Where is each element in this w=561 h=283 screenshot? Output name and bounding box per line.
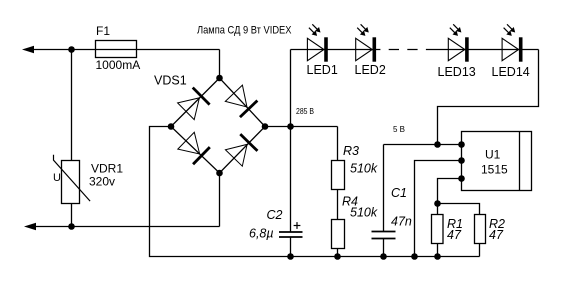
svg-text:LED2: LED2: [355, 63, 386, 77]
svg-text:1000mA: 1000mA: [96, 58, 141, 72]
wire U1 pin1 line: [384, 144, 462, 146]
svg-text:VDR1: VDR1: [91, 162, 123, 176]
resistor R4: [332, 220, 345, 249]
wire R1 top lead: [437, 204, 439, 215]
wire node285 up to LED chain: [290, 50, 292, 127]
svg-text:Лампа СД 9 Вт VIDEX: Лампа СД 9 Вт VIDEX: [197, 25, 292, 37]
svg-text:320v: 320v: [89, 175, 115, 189]
wire R3-R4 link: [337, 190, 339, 220]
bridge diode D bottom-left: [178, 132, 210, 164]
svg-text:U: U: [53, 172, 61, 184]
arrow left top: [22, 46, 34, 53]
svg-text:U1: U1: [485, 147, 501, 161]
wire R1 R2 top link: [438, 204, 480, 215]
svg-text:LED14: LED14: [492, 65, 530, 79]
wire vertical to bridge top: [219, 50, 221, 79]
svg-text:510k: 510k: [350, 206, 378, 220]
wire C2 bottom lead: [290, 237, 292, 257]
wire C1 bottom lead: [383, 239, 385, 257]
resistor R1: [432, 215, 444, 244]
wire C1 top lead: [383, 145, 385, 232]
wire LED return right side down: [438, 50, 539, 145]
svg-text:VDS1: VDS1: [154, 73, 187, 87]
capacitor C2: [279, 232, 303, 237]
wire bottom AC line: [28, 226, 220, 228]
node fuse tap: [68, 46, 75, 53]
node bridge left: [168, 123, 175, 130]
node bus R4: [334, 253, 341, 260]
svg-text:LED1: LED1: [307, 63, 338, 77]
wire U1 pin2 line to ground: [415, 161, 462, 257]
bridge diode D bottom-right: [225, 134, 257, 166]
wire varistor branch vertical top: [71, 50, 73, 161]
bridge diamond wires VDS1: [171, 78, 265, 173]
svg-text:LED13: LED13: [438, 65, 476, 79]
varistor VDR1 body: [54, 155, 91, 204]
svg-text:1515: 1515: [481, 162, 508, 176]
node bus R1: [434, 253, 441, 260]
svg-text:5 В: 5 В: [393, 125, 405, 134]
svg-text:C1: C1: [391, 186, 407, 200]
wire R1 bottom lead: [437, 244, 439, 257]
wire top AC line: [26, 49, 220, 51]
node bridge top: [216, 75, 223, 82]
wire R4 bottom lead: [337, 249, 339, 257]
LED13: [448, 37, 467, 61]
node bridge right: [262, 123, 269, 130]
C2 plus sign: [294, 222, 301, 229]
wire LED chain top: [291, 49, 381, 51]
node pinC at U1: [458, 175, 465, 182]
svg-text:47n: 47n: [391, 215, 412, 229]
svg-text:6,8µ: 6,8µ: [249, 226, 274, 240]
capacitor C1: [372, 232, 396, 239]
LED14: [502, 37, 521, 61]
wire bridge left node to DC- bus: [150, 127, 480, 257]
wire bridge right node to node285: [265, 126, 338, 128]
LED2: [356, 37, 375, 61]
node bridge bottom: [216, 170, 223, 177]
svg-text:47: 47: [447, 228, 462, 242]
node varistor bottom: [68, 223, 75, 230]
node R1R2 top: [434, 200, 441, 207]
wire bridge bottom to AC line: [219, 173, 221, 227]
arrow left bottom: [24, 223, 36, 230]
wire LED chain right: [433, 49, 539, 51]
node pinA at U1: [458, 141, 465, 148]
wire C2 top lead: [290, 127, 292, 233]
svg-text:R3: R3: [343, 144, 359, 158]
wire R3 top lead: [337, 127, 339, 161]
bridge diode D top-left: [178, 88, 210, 120]
node pinA left: [434, 141, 441, 148]
wire dashed LED chain gap: [389, 49, 433, 51]
svg-text:F1: F1: [96, 24, 110, 38]
fuse F1: [96, 41, 137, 58]
resistor R2: [475, 215, 486, 244]
node bus pinB: [411, 253, 418, 260]
svg-text:510k: 510k: [350, 161, 378, 175]
wire U1 pin3 line: [438, 179, 462, 204]
wire R2 bottom lead: [479, 244, 481, 257]
node bus C2: [287, 253, 294, 260]
svg-text:C2: C2: [267, 208, 283, 222]
svg-text:47: 47: [489, 228, 504, 242]
svg-text:285 В: 285 В: [296, 107, 314, 116]
node pinB at U1: [458, 157, 465, 164]
op-amp U1 box: [462, 132, 532, 191]
bridge diode D top-right: [225, 85, 257, 117]
node bus C1: [380, 253, 387, 260]
resistor R3: [332, 161, 345, 190]
LED1: [307, 37, 326, 61]
node 285V: [287, 123, 294, 130]
wire varistor bottom lead: [71, 204, 73, 227]
